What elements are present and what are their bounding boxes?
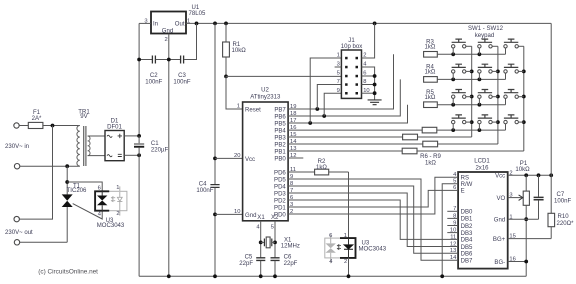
wire PB2 to R8	[288, 143, 423, 145]
resistor R8	[423, 141, 438, 147]
terminal 230V in N	[14, 164, 19, 169]
svg-text:X1: X1	[284, 237, 292, 243]
node BG minus gnd	[524, 260, 528, 264]
stub DB1	[447, 217, 458, 219]
wire J1 pin4 gnd chain	[362, 67, 375, 100]
wire LCD Vcc row	[508, 174, 552, 176]
svg-text:PD6: PD6	[274, 170, 286, 176]
svg-text:PB6: PB6	[274, 114, 286, 120]
svg-text:1: 1	[237, 104, 240, 110]
resistor R7	[403, 134, 418, 140]
wire terminal N to transformer	[20, 165, 80, 167]
node U1 out / C3 riser	[195, 22, 199, 26]
svg-text:230V~ in: 230V~ in	[5, 144, 29, 150]
wire between C2 and C3	[156, 59, 180, 61]
node +5V to J1 pin2	[373, 22, 377, 26]
svg-text:9V: 9V	[80, 114, 87, 120]
wire +5V rail from U1 out	[186, 22, 551, 24]
svg-text:C2: C2	[150, 73, 158, 79]
svg-text:PB3: PB3	[274, 135, 286, 141]
capacitor C3	[173, 56, 190, 86]
svg-text:U2: U2	[261, 87, 269, 93]
svg-text:E: E	[461, 189, 465, 195]
svg-text:R6 - R9: R6 - R9	[420, 154, 441, 160]
svg-text:2x16: 2x16	[475, 166, 489, 172]
pushbutton SW5	[478, 64, 498, 79]
svg-text:C6: C6	[284, 254, 292, 260]
node D1 minus	[137, 153, 141, 157]
keypad column3	[523, 46, 525, 151]
wire R7 to column1	[418, 136, 472, 138]
wire J1 pin2 to +5V	[362, 23, 375, 58]
wire gate diagonal to optotriac pin4	[73, 204, 103, 219]
svg-text:PB7: PB7	[274, 107, 286, 113]
svg-text:220Ω*: 220Ω*	[557, 221, 575, 227]
node J1 pin10 gnd	[373, 91, 377, 95]
wire isp sck riser	[317, 85, 341, 110]
svg-text:R/W: R/W	[461, 182, 473, 188]
svg-text:DB0: DB0	[461, 210, 473, 216]
wire J1 pin10	[362, 92, 375, 94]
svg-text:X1: X1	[257, 215, 265, 221]
wire RW to ground	[442, 184, 458, 276]
wire PB3 to R7	[288, 136, 403, 138]
svg-text:C4: C4	[199, 182, 207, 188]
node triac gate net branch	[65, 180, 69, 184]
stub DB3	[447, 232, 458, 234]
node rail RW	[440, 274, 444, 278]
capacitor C2	[145, 56, 162, 86]
pushbutton SW10	[452, 115, 472, 130]
svg-text:20: 20	[234, 153, 240, 159]
svg-text:TIC206: TIC206	[67, 188, 87, 194]
svg-text:5: 5	[271, 225, 274, 231]
keypad row3 wire	[437, 104, 505, 106]
wire PD1 to E	[288, 190, 458, 207]
pushbutton SW3	[504, 39, 524, 54]
svg-text:1kΩ: 1kΩ	[425, 45, 436, 51]
wire X2 pin5 drop	[274, 221, 276, 258]
wire J1 pin8	[362, 84, 375, 86]
node rail C6	[273, 274, 277, 278]
wire terminal to fuse	[19, 125, 28, 127]
svg-text:10kΩ: 10kΩ	[232, 48, 247, 54]
svg-text:22pF: 22pF	[284, 261, 298, 267]
svg-text:1: 1	[344, 233, 347, 239]
bridge rectifier D1 DF01	[105, 118, 124, 160]
node rail U3	[347, 274, 351, 278]
node PB5 isp	[308, 121, 312, 125]
svg-text:2: 2	[344, 259, 347, 265]
wire isp miso riser	[324, 93, 341, 116]
capacitor C1 220uF electrolytic	[134, 136, 168, 155]
svg-text:D1: D1	[111, 118, 119, 124]
pin numbers LCD right	[509, 170, 515, 262]
pushbutton SW8	[478, 90, 498, 105]
pushbutton SW12	[504, 115, 524, 130]
svg-text:PD5: PD5	[274, 177, 286, 183]
svg-text:22pF: 22pF	[239, 261, 253, 267]
wire R9 to column3	[417, 150, 524, 152]
svg-text:PD4: PD4	[274, 184, 286, 190]
svg-text:7: 7	[337, 79, 340, 85]
node crystal left	[259, 241, 263, 245]
node R1 reset junction	[224, 75, 228, 79]
svg-text:PD2: PD2	[274, 198, 286, 204]
capacitor C6	[271, 254, 298, 276]
svg-text:In: In	[153, 22, 158, 28]
node in rail at C2 row	[137, 58, 141, 62]
wire transformer secondary bottom	[88, 155, 105, 157]
wire BG plus row	[508, 238, 552, 240]
svg-text:PB5: PB5	[274, 121, 286, 127]
wire triac to out terminal N	[20, 241, 67, 243]
svg-text:R10: R10	[558, 214, 570, 220]
svg-text:PD3: PD3	[274, 191, 286, 197]
wire U1 gnd down	[168, 34, 170, 277]
wire PB7 to keypad row1 riser	[288, 54, 393, 109]
pin numbers J1	[337, 53, 370, 94]
node rail C5	[259, 274, 263, 278]
svg-text:PB0: PB0	[274, 156, 286, 162]
pin numbers U2 right	[290, 104, 297, 215]
LCD1 2x16	[458, 159, 508, 269]
svg-text:10p box: 10p box	[341, 44, 363, 50]
svg-text:MOC3043: MOC3043	[97, 223, 125, 229]
svg-text:PD0: PD0	[274, 212, 286, 218]
node rail mcu gnd	[213, 274, 217, 278]
wire PB4 keypad row4 left	[288, 129, 422, 131]
svg-text:C3: C3	[178, 73, 186, 79]
svg-text:P1: P1	[520, 161, 528, 167]
node Gnd junction U2	[213, 213, 217, 217]
wire live drop to out terminal	[19, 126, 52, 220]
terminal 230V in L	[14, 123, 19, 128]
svg-text:VO: VO	[496, 196, 505, 202]
wire BG minus row	[508, 261, 527, 263]
MCU U2 ATtiny2313	[243, 87, 289, 221]
keypad row4 wire	[437, 129, 506, 131]
svg-text:10: 10	[234, 209, 240, 215]
svg-text:BG-: BG-	[494, 260, 505, 266]
wire PD3 to DB5	[288, 193, 458, 247]
svg-text:2A*: 2A*	[32, 116, 42, 122]
svg-text:keypad: keypad	[475, 33, 495, 39]
node P1 top	[524, 173, 528, 177]
resistor R10	[548, 213, 574, 238]
bottom ground rail	[139, 275, 526, 277]
wire gnd rail left riser	[138, 155, 140, 276]
svg-text:100nF: 100nF	[554, 198, 571, 204]
wire D1 minus out	[124, 154, 139, 156]
wire reset drop to U2 pin1	[226, 76, 243, 109]
svg-text:1kΩ: 1kΩ	[316, 165, 327, 171]
wire R8 to column2	[438, 143, 498, 145]
wire +5V MCU rail down	[214, 23, 216, 184]
svg-text:Gnd: Gnd	[162, 29, 173, 35]
svg-text:DB3: DB3	[461, 231, 473, 237]
keypad row2 wire	[437, 78, 505, 80]
terminal 230V out N	[14, 240, 19, 245]
keypad column1	[471, 46, 473, 137]
wire PB5 to row3 riser	[288, 105, 407, 123]
wire D1 plus out	[124, 135, 139, 137]
svg-text:ATtiny2313: ATtiny2313	[250, 95, 281, 101]
svg-text:U3: U3	[362, 240, 370, 246]
wire PB0 stub	[288, 157, 303, 159]
svg-text:9: 9	[337, 88, 340, 94]
node +5V to R1	[224, 22, 228, 26]
wire R2 drop to optotriac pin1	[348, 172, 350, 244]
svg-text:RS: RS	[461, 176, 469, 182]
wire C2 C3 row	[139, 59, 152, 61]
svg-text:1kΩ: 1kΩ	[425, 160, 436, 166]
svg-text:(c) CircuitsOnline.net: (c) CircuitsOnline.net	[38, 269, 98, 276]
svg-text:DF01: DF01	[107, 125, 122, 131]
transformer TR1	[77, 110, 90, 166]
wire J1 pin3 nc stub	[335, 66, 342, 68]
node J1 pin8 gnd	[373, 83, 377, 87]
pushbutton SW11	[478, 115, 498, 130]
wire isp mosi riser	[310, 58, 341, 123]
node PB7 isp	[315, 107, 319, 111]
node PB6 isp	[322, 114, 326, 118]
svg-text:DB4: DB4	[461, 238, 473, 244]
svg-text:PB2: PB2	[274, 142, 286, 148]
wire C3 to out riser	[184, 23, 197, 59]
svg-text:SW1 - SW12: SW1 - SW12	[468, 26, 504, 32]
wire transformer secondary top	[88, 135, 105, 137]
wire J1 pin6	[362, 75, 375, 77]
svg-text:Out: Out	[175, 22, 185, 28]
svg-text:100nF: 100nF	[145, 80, 162, 86]
node P1 bottom gnd row	[524, 217, 528, 221]
svg-text:2: 2	[116, 211, 119, 217]
svg-text:Reset: Reset	[245, 107, 261, 113]
wire rectifier + riser	[138, 23, 140, 135]
svg-text:2: 2	[165, 37, 168, 43]
resistor R1	[223, 23, 247, 76]
svg-text:5: 5	[337, 71, 340, 77]
stub DB0	[447, 210, 458, 212]
optotriac U3 bottom MOC3043	[325, 233, 387, 265]
svg-text:MOC3043: MOC3043	[359, 247, 387, 253]
keypad column2	[497, 46, 499, 144]
svg-text:Gnd: Gnd	[245, 213, 256, 219]
pin numbers LCD left	[450, 172, 457, 261]
resistor R6	[422, 127, 437, 133]
wire +5V descent	[550, 23, 552, 213]
pushbutton SW1	[452, 39, 472, 54]
node +5V to MCU rail	[213, 22, 217, 26]
svg-text:BG+: BG+	[493, 237, 506, 243]
svg-text:DB1: DB1	[461, 217, 473, 223]
svg-text:PD1: PD1	[274, 205, 286, 211]
node gnd at C2C3 row	[167, 58, 171, 62]
svg-text:C5: C5	[245, 254, 253, 260]
optotriac U3 left MOC3043	[95, 185, 127, 229]
pushbutton SW6	[504, 64, 524, 79]
node Vcc junction	[213, 157, 217, 161]
node +5V corner	[549, 173, 553, 177]
node rail U1gnd	[167, 274, 171, 278]
svg-text:U1: U1	[192, 5, 200, 11]
wire fuse to transformer	[43, 125, 80, 127]
node C7 top	[537, 173, 541, 177]
svg-text:C1: C1	[151, 141, 159, 147]
svg-text:Vcc: Vcc	[245, 157, 255, 163]
keypad row1 wire	[437, 53, 505, 55]
wire optotriac pin2 to rail	[348, 258, 350, 276]
pushbutton SW9	[504, 90, 524, 105]
node transformer neutral branch	[65, 164, 69, 168]
resistor R9	[402, 148, 417, 154]
capacitor C7	[534, 175, 572, 219]
svg-text:DB2: DB2	[461, 224, 473, 230]
svg-text:100nF: 100nF	[173, 80, 190, 86]
svg-text:PB4: PB4	[274, 128, 286, 134]
svg-text:Gnd: Gnd	[494, 218, 505, 224]
wire neutral down to triac	[66, 166, 68, 194]
svg-text:6: 6	[329, 233, 332, 239]
wire PD4 to DB6	[288, 186, 458, 253]
terminal 230V out L	[14, 216, 19, 221]
svg-text:C7: C7	[557, 192, 565, 198]
wire U1 pin3 to +rail	[139, 22, 151, 24]
wire gnd to U2 pin10	[215, 213, 243, 215]
wire PD5 to DB7	[288, 179, 458, 260]
resistor R4	[424, 65, 438, 83]
wire LCD gnd row	[508, 218, 539, 220]
resistor R3	[424, 40, 438, 58]
svg-text:1: 1	[116, 185, 119, 191]
resistor R5	[424, 90, 438, 108]
node mains live branch	[51, 124, 55, 128]
svg-text:R1: R1	[233, 42, 241, 48]
svg-text:10kΩ: 10kΩ	[515, 167, 530, 173]
svg-text:J1: J1	[348, 38, 355, 44]
svg-text:78L05: 78L05	[189, 11, 206, 17]
pushbutton SW4	[452, 64, 472, 79]
wire branch to optotriac pin6	[67, 182, 102, 191]
pushbutton SW2	[478, 39, 498, 54]
svg-text:100nF: 100nF	[196, 188, 213, 194]
svg-text:LCD1: LCD1	[474, 159, 490, 165]
svg-text:6: 6	[98, 185, 101, 191]
potentiometer P1	[508, 161, 530, 276]
svg-text:R2: R2	[318, 159, 326, 165]
svg-text:PB1: PB1	[274, 149, 286, 155]
wire PB6 to row2 riser	[288, 79, 400, 116]
svg-text:1kΩ: 1kΩ	[425, 70, 436, 76]
svg-text:1: 1	[337, 53, 340, 59]
svg-text:220µF: 220µF	[151, 147, 169, 153]
regulator U1 78L05	[144, 5, 206, 43]
svg-text:DB5: DB5	[461, 245, 473, 251]
wire Vcc to U2 pin20	[215, 157, 243, 159]
wire R1 junction to J1 pin5	[226, 75, 341, 77]
stub DB2	[447, 225, 458, 227]
svg-text:Vcc: Vcc	[495, 174, 505, 180]
node crystal right	[273, 241, 277, 245]
svg-text:1kΩ: 1kΩ	[425, 95, 436, 101]
wire PD0 to RS	[288, 177, 458, 214]
node D1 plus	[137, 134, 141, 138]
connector J1 10p box	[341, 38, 363, 99]
capacitor C5	[239, 254, 265, 276]
crystal X1 12MHz	[261, 237, 300, 250]
node J1 pin6 gnd	[373, 74, 377, 78]
svg-text:230V~ out: 230V~ out	[5, 230, 33, 236]
pushbutton SW7	[452, 90, 472, 105]
resistor R2	[288, 159, 348, 175]
wire C4 to gnd junction	[214, 188, 216, 276]
svg-text:12MHz: 12MHz	[281, 244, 300, 250]
svg-text:DB7: DB7	[461, 259, 473, 265]
triac T1 TIC206	[62, 184, 87, 243]
svg-text:DB6: DB6	[461, 252, 473, 258]
fuse F1	[28, 110, 43, 128]
ground symbol J1	[368, 100, 382, 105]
wire PB1 to R9	[288, 150, 402, 152]
wire X1 pin4 drop	[260, 221, 262, 258]
wire PD2 to DB4	[288, 200, 458, 239]
capacitor C4	[196, 182, 219, 194]
